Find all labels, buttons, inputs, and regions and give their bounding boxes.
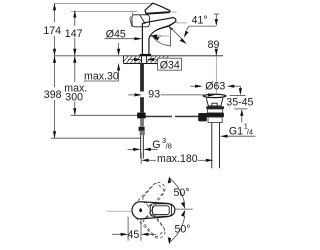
svg-text:41°: 41°: [192, 15, 208, 27]
faucet body side view: [140, 18, 176, 56]
outlet swing arc: [154, 39, 170, 46]
dim 89: [214, 13, 220, 15]
svg-text:50°: 50°: [175, 224, 191, 236]
ext line spout tip level: [71, 11, 137, 13]
dim 45: [127, 217, 129, 241]
svg-text:max.30: max.30: [84, 70, 119, 82]
svg-text:45: 45: [128, 229, 140, 241]
svg-text:300: 300: [65, 91, 83, 103]
svg-text:Ø34: Ø34: [160, 59, 180, 71]
arrow Ø45 right: [149, 35, 162, 37]
svg-text:89: 89: [208, 39, 220, 51]
ext line top (lever top level): [55, 2, 153, 4]
pad outer: [150, 204, 171, 216]
neck: [206, 98, 223, 106]
dome: [203, 94, 226, 97]
tick flange bottom: [235, 108, 248, 110]
solid handle outline: [132, 202, 175, 219]
bottom line 398 level: [51, 137, 141, 139]
label Ø63: [190, 85, 195, 87]
dashed handle down: [128, 198, 169, 242]
bottom line max300 level: [71, 114, 142, 116]
hole arrows: [128, 59, 135, 61]
dim line 147/max300: [74, 11, 76, 27]
dashed raised lever: [130, 19, 132, 27]
pad inner: [152, 206, 169, 215]
outlet vertical ref: [170, 27, 172, 47]
outlet stream arrow: [172, 29, 185, 42]
leader left: [107, 210, 133, 212]
lever blade: [145, 3, 170, 14]
tailpipe: [211, 123, 213, 169]
shank threaded rod: [137, 64, 145, 136]
svg-text:147: 147: [65, 28, 83, 40]
dim line 174/398: [54, 3, 56, 22]
aerator: [169, 27, 173, 31]
drain assembly: [198, 94, 226, 168]
svg-text:93: 93: [148, 89, 160, 101]
plan view: [107, 179, 175, 242]
dim max.180: [140, 153, 142, 165]
svg-text:/8: /8: [166, 141, 172, 150]
leader Ø45: [105, 38, 137, 40]
tick dome top: [230, 95, 246, 97]
svg-text:174: 174: [43, 25, 61, 37]
dashed handle up: [128, 179, 169, 223]
pivot dot: [139, 208, 142, 212]
upper 50 arc: [169, 178, 185, 205]
lever knob: [132, 15, 149, 27]
svg-text:50°: 50°: [174, 187, 190, 199]
pop-up rod to drain: [144, 116, 172, 118]
counter hatch section: [55, 54, 224, 66]
lever socket: [198, 113, 207, 121]
svg-text:398: 398: [44, 89, 62, 101]
svg-text:max.180: max.180: [157, 153, 198, 165]
spout underside inner line: [152, 22, 176, 34]
svg-text:/4: /4: [247, 128, 253, 137]
svg-text:Ø63: Ø63: [205, 81, 225, 93]
flange stack: [206, 106, 224, 109]
lower 50 arc: [169, 216, 185, 243]
spout tip ext line: [176, 22, 187, 24]
drain axis ext: [215, 56, 217, 94]
svg-text:35-45: 35-45: [226, 96, 253, 108]
svg-text:G1: G1: [229, 125, 243, 137]
angle ref line: [175, 208, 193, 210]
dim 93: [128, 94, 135, 96]
box Ø34: [158, 58, 182, 70]
hose stem: [141, 135, 144, 159]
